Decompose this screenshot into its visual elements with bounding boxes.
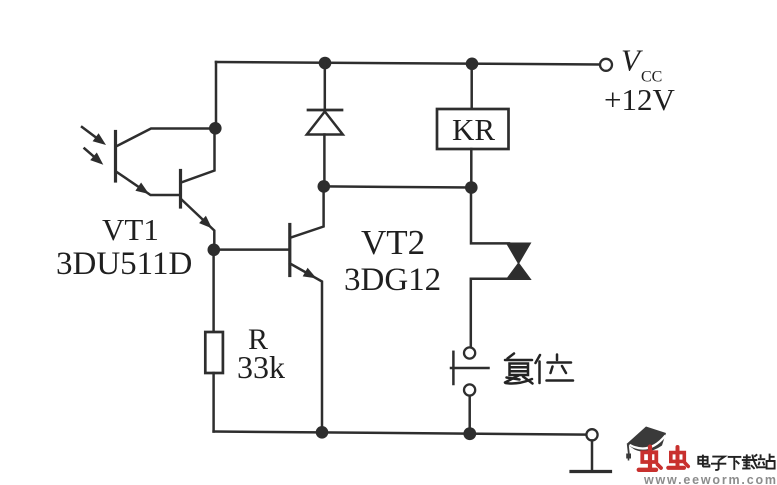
wire top bus [216, 62, 600, 65]
wire KR bottom [470, 149, 473, 188]
svg-text:KR: KR [452, 112, 495, 147]
wire mid horizontal [324, 186, 472, 187]
wire from breakdown element bottom [471, 279, 509, 348]
VT1 emitter wire [116, 172, 181, 196]
wire base VT2 [214, 248, 290, 251]
VT2 collector wire [290, 187, 324, 238]
svg-text:V: V [621, 43, 643, 78]
label Vcc [56, 43, 675, 386]
darlington 2nd emitter arrow [199, 216, 212, 229]
node mid-left [318, 180, 331, 193]
light arrow 2 [85, 149, 97, 159]
svg-text:VT2: VT2 [361, 223, 425, 262]
logo 电子下载站 drawn strokes [698, 454, 774, 470]
VT1 emitter arrow [135, 183, 149, 195]
button SB bottom contact [464, 384, 475, 395]
darlington 2nd emitter wire [181, 199, 214, 250]
svg-text:33k: 33k [237, 349, 285, 385]
svg-text:www.eeworm.com: www.eeworm.com [643, 473, 777, 485]
svg-text:3DG12: 3DG12 [344, 262, 441, 298]
logo graduation cap [626, 427, 666, 461]
diode VD triangle [307, 112, 343, 135]
VT1 collector wire [116, 129, 216, 147]
logo 虫虫 red characters [639, 447, 688, 470]
Vcc terminal [600, 59, 612, 71]
ground terminal circle [586, 429, 597, 440]
svg-text:3DU511D: 3DU511D [56, 246, 192, 282]
wire button to bus [468, 396, 471, 434]
wire resistor bottom [212, 373, 215, 432]
node collector junction [209, 122, 222, 135]
button actuator [452, 352, 455, 384]
breakdown diode element (hourglass) [507, 244, 529, 263]
node base of VT2 [208, 244, 221, 257]
wire diode top [324, 63, 327, 110]
node VT2 emitter on bus [316, 426, 329, 439]
phototransistor VT1 base bar [114, 132, 117, 182]
label 复位 (reset) drawn strokes [505, 354, 573, 384]
wire left drop [215, 62, 218, 128]
transistor (darlington 2nd) base bar [179, 171, 182, 208]
wire diode bottom [323, 135, 326, 187]
ground wire [591, 441, 594, 472]
resistor R [205, 332, 223, 373]
diode VD cathode bar [308, 109, 342, 112]
node diode top [319, 57, 332, 70]
svg-text:VT1: VT1 [102, 212, 159, 247]
relay KR box [437, 109, 509, 149]
VT2 emitter wire [290, 264, 322, 433]
light arrow 1 [82, 127, 99, 140]
ground bar [571, 470, 611, 473]
wire to breakdown element top [471, 188, 509, 244]
VT2 emitter arrow [303, 268, 317, 279]
wire resistor top [212, 250, 215, 332]
node KR top [466, 58, 479, 71]
node button on bus [463, 427, 476, 440]
darlington 2nd collector wire [181, 129, 215, 183]
wire KR top [470, 64, 473, 109]
node mid-right [465, 181, 478, 194]
wire bottom bus [214, 432, 587, 435]
transistor VT2 base bar [288, 225, 291, 276]
svg-text:+12V: +12V [604, 82, 675, 117]
button SB top contact [464, 347, 475, 358]
